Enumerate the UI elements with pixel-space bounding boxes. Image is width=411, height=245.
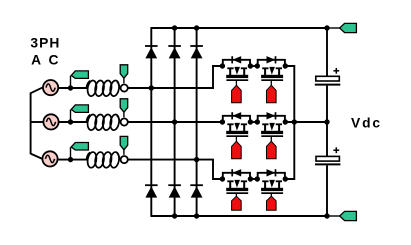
output probe flag DC+ xyxy=(340,23,357,32)
diode D1 (top, leg 1) xyxy=(145,46,158,58)
AC source VA xyxy=(43,80,58,95)
junction top rail leg 3 xyxy=(194,25,199,30)
terminal node circle phase A xyxy=(121,84,128,91)
current probe flag phase A xyxy=(120,65,128,83)
junction phase A on leg 1 xyxy=(149,85,154,90)
AC source VC xyxy=(42,151,57,166)
current probe flag phase C xyxy=(120,136,128,154)
junction Q4 left terminal xyxy=(255,119,260,124)
gating block G4 xyxy=(267,137,277,159)
wire bus to source VA xyxy=(31,87,44,93)
wire DC negative bottom rail xyxy=(150,215,327,217)
junction top rail output xyxy=(324,25,329,30)
antiparallel diode DQ5 xyxy=(223,169,250,179)
antiparallel diode DQ2 xyxy=(258,56,285,66)
MOSFET Q1 xyxy=(226,67,248,81)
wire DC positive top rail xyxy=(150,27,327,29)
wire inductor LA to node circle xyxy=(120,87,121,89)
MOSFET Q4 xyxy=(261,123,283,137)
wire bus to source VC xyxy=(31,154,44,160)
antiparallel diode DQ1 xyxy=(223,56,250,66)
junction Q4 right terminal xyxy=(283,119,288,124)
gating block G3 xyxy=(232,137,242,159)
wire phase C node to bridge leg 3 and bend down to switch row 3 xyxy=(128,160,223,179)
wire switch row 1 inter-unit xyxy=(250,65,257,67)
wire source common bus xyxy=(30,93,32,155)
svg-text:A C: A C xyxy=(31,52,60,67)
junction bottom rail leg 3 xyxy=(194,213,199,218)
voltage probe flag phase C xyxy=(71,143,89,159)
diode D3 (top, leg 3) xyxy=(190,46,203,58)
capacitor C1 (upper) xyxy=(315,68,341,85)
wire switch row 2 inter-unit xyxy=(250,121,257,123)
voltage probe flag phase B xyxy=(71,105,89,121)
node dot phase A source side xyxy=(68,85,73,90)
junction top rail leg 2 xyxy=(172,25,177,30)
capacitor C2 (lower) xyxy=(315,147,340,164)
wire switch row 3 inter-unit xyxy=(250,178,257,180)
label Vdc xyxy=(351,116,382,131)
antiparallel diode DQ3 xyxy=(223,112,250,122)
diode D6 (bottom, leg 3) xyxy=(190,185,203,197)
gating block G2 xyxy=(267,81,277,103)
junction Q2 left terminal xyxy=(255,63,260,68)
junction phase C on leg 3 xyxy=(194,157,199,162)
junction Q5 left terminal xyxy=(220,176,225,181)
wire source VB to inductor LB xyxy=(58,121,87,123)
wire source VA to inductor LA xyxy=(58,87,87,89)
wire bridge leg 2 xyxy=(174,28,176,216)
wire switch row 2 to midpoint xyxy=(285,121,327,123)
MOSFET Q3 xyxy=(226,123,248,137)
junction Q6 right terminal xyxy=(283,176,288,181)
gating block G6 xyxy=(267,194,277,210)
gating block G1 xyxy=(232,81,242,103)
junction phase B on leg 2 xyxy=(172,119,177,124)
inductor LC xyxy=(86,151,120,168)
node dot phase B source side xyxy=(68,119,73,124)
svg-text:3PH: 3PH xyxy=(30,36,60,51)
wire source VC to inductor LC xyxy=(58,159,87,161)
junction right bus midpoint xyxy=(292,119,297,124)
MOSFET Q2 xyxy=(261,67,283,81)
current probe flag phase B xyxy=(120,99,128,117)
inductor LB xyxy=(86,114,120,131)
junction Q5 right terminal xyxy=(248,176,253,181)
wire midpoint to capacitor C2 xyxy=(326,122,328,156)
wire capacitor C2 to bottom rail xyxy=(326,165,328,216)
wire bridge leg 3 xyxy=(196,28,198,216)
inductor LA xyxy=(86,80,120,97)
junction Q3 left terminal xyxy=(220,119,225,124)
svg-text:Vdc: Vdc xyxy=(351,116,382,131)
wire switch row 1 to right bus xyxy=(285,66,294,121)
antiparallel diode DQ6 xyxy=(258,169,285,179)
junction Q6 left terminal xyxy=(255,176,260,181)
label 3PH AC xyxy=(30,36,60,68)
terminal node circle phase B xyxy=(121,118,128,125)
junction bottom rail output xyxy=(324,213,329,218)
junction bottom rail leg 2 xyxy=(172,213,177,218)
wire top rail to probe xyxy=(327,27,340,29)
diode D5 (bottom, leg 2) xyxy=(168,185,181,197)
wire bottom rail to probe xyxy=(327,215,340,217)
voltage probe flag phase A xyxy=(71,71,89,87)
junction capacitor midpoint xyxy=(324,119,329,124)
wire phase B node through bridge to switch row 2 xyxy=(128,121,223,123)
wire inductor LC to node circle xyxy=(120,159,121,161)
wire top rail to capacitor C1 xyxy=(326,28,328,76)
wire capacitor C1 to midpoint xyxy=(326,86,328,122)
gating block G5 xyxy=(232,194,242,210)
MOSFET Q6 xyxy=(261,180,283,194)
AC source VB xyxy=(43,114,58,129)
junction Q1 right terminal xyxy=(248,63,253,68)
wire inductor LB to node circle xyxy=(120,121,121,123)
node dot phase C source side xyxy=(68,157,73,162)
output probe flag DC- xyxy=(340,211,357,220)
wire phase A node to bridge leg 1 and bend up to switch row 1 xyxy=(128,66,223,88)
diode D2 (top, leg 2) xyxy=(168,46,181,58)
terminal node circle phase C xyxy=(121,156,128,163)
wire switch row 3 to right bus xyxy=(285,123,294,179)
wire bus to source VB xyxy=(31,121,44,123)
junction Q1 left terminal xyxy=(220,63,225,68)
antiparallel diode DQ4 xyxy=(258,112,285,122)
junction Q3 right terminal xyxy=(248,119,253,124)
MOSFET Q5 xyxy=(226,180,248,194)
diode D4 (bottom, leg 1) xyxy=(145,185,158,197)
wire bridge leg 1 xyxy=(150,28,152,216)
junction Q2 right terminal xyxy=(283,63,288,68)
